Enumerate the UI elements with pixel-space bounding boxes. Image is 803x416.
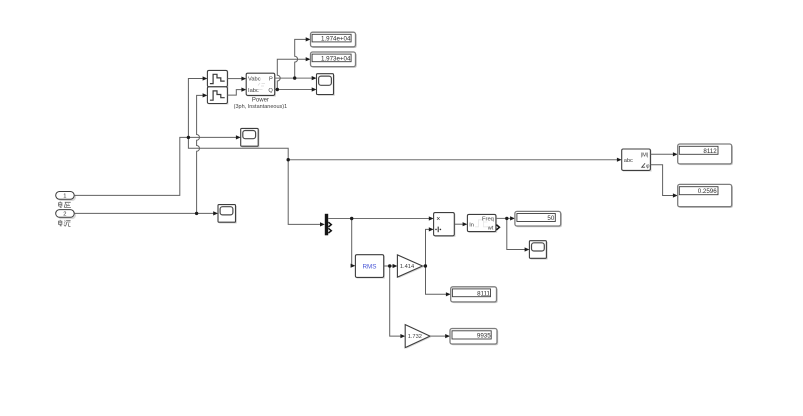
wire gain 1.732 to display 9935	[430, 334, 450, 338]
svg-text:RMS: RMS	[363, 263, 377, 270]
wire gain 1.414 tip to junction F	[423, 265, 426, 267]
demux	[325, 214, 332, 236]
wire port1 to junction A	[74, 137, 188, 195]
wire junction A right to scope B	[188, 135, 240, 139]
svg-text:Freq: Freq	[482, 217, 494, 223]
inport 1 (电压)	[56, 192, 76, 202]
junction G	[505, 217, 508, 220]
scope D (freq)	[529, 241, 547, 260]
wire P riser to display 1.974e+04 (hops Q branch)	[295, 37, 311, 78]
svg-text:Power: Power	[252, 97, 269, 103]
svg-text:×: ×	[436, 216, 440, 223]
wire rate transition 1 to Vabc	[227, 77, 246, 81]
svg-text:8111: 8111	[477, 290, 490, 297]
wire Q output to scope A	[275, 87, 317, 91]
power (3ph, instantaneous) block	[246, 73, 276, 96]
wire port2 to scope C	[74, 211, 218, 215]
svg-text:abc: abc	[624, 158, 633, 164]
svg-text:P: P	[269, 76, 273, 82]
display 1.973e+04	[311, 52, 357, 68]
wire abc |M| to display 8112	[650, 152, 677, 156]
svg-text:Iabc: Iabc	[248, 88, 259, 94]
rate transition 1	[207, 70, 228, 88]
gain 1.732	[405, 325, 431, 349]
svg-text:1.974e+04: 1.974e+04	[321, 36, 351, 43]
label 电压	[59, 202, 71, 208]
Freq (PLL) block	[467, 214, 499, 232]
display 0.2596	[678, 184, 733, 208]
display 1.974e+04	[311, 32, 357, 48]
svg-text:1.414: 1.414	[400, 264, 414, 270]
svg-text:0.2596: 0.2596	[698, 188, 717, 195]
wire rate transition 2 to Iabc	[227, 88, 246, 96]
junction D	[350, 217, 353, 220]
scope C (current)	[218, 205, 237, 224]
abc magnitude-angle block	[622, 149, 652, 172]
junction C	[195, 212, 198, 215]
wire junction D down to RMS	[351, 219, 356, 268]
scope A (P,Q)	[317, 74, 335, 96]
junction E	[388, 264, 391, 267]
wire junction B down to demux	[288, 160, 325, 227]
label (3ph, Instantaneous)1	[234, 104, 288, 110]
wire Freq to display 50	[496, 216, 515, 220]
label 电流	[59, 220, 71, 227]
svg-text:Q: Q	[268, 88, 273, 94]
junction F	[424, 264, 427, 267]
svg-text:φ: φ	[646, 164, 650, 170]
inport 2 (电流)	[56, 210, 76, 220]
svg-text:1.732: 1.732	[408, 334, 422, 340]
svg-text:(3ph, Instantaneous)1: (3ph, Instantaneous)1	[234, 104, 288, 110]
product (divide) block	[434, 213, 456, 237]
wire RMS to gain 1.414	[384, 264, 398, 268]
wire demux out1 to product x	[328, 216, 433, 220]
svg-text:9935: 9935	[477, 333, 491, 340]
display 9935	[450, 329, 498, 346]
display 8111	[451, 287, 498, 303]
RMS block	[355, 255, 385, 279]
svg-text:2: 2	[63, 212, 66, 218]
wire Q riser to display 1.973e+04 (hops P riser)	[277, 57, 310, 89]
rate transition 2	[207, 87, 228, 105]
svg-text:wt: wt	[487, 226, 494, 232]
label Power	[252, 97, 269, 103]
junction P	[293, 76, 296, 79]
wire abc angle to display 0.2596	[650, 165, 677, 198]
svg-text:|M|: |M|	[641, 153, 649, 159]
wire junction B to abc block	[288, 158, 622, 162]
wire junction A up to rate transition 1	[188, 76, 207, 137]
display 50	[515, 211, 562, 227]
display 8112	[678, 144, 733, 165]
wire junction G down to scope D	[507, 218, 530, 251]
junction Q	[276, 88, 279, 91]
wire junction E down to gain 1.732	[390, 266, 406, 338]
wire P output to scope A (hops Q riser)	[275, 76, 317, 80]
svg-text:1.973e+04: 1.973e+04	[321, 55, 351, 62]
svg-text:In: In	[469, 222, 474, 228]
svg-text:1: 1	[63, 194, 66, 200]
junction B	[287, 158, 290, 161]
svg-text:50: 50	[547, 215, 554, 222]
wire junction F up to product divide input	[426, 227, 434, 266]
svg-text:Vabc: Vabc	[248, 77, 261, 83]
svg-text:8112: 8112	[703, 148, 717, 155]
wire junction F down to display 8111	[426, 266, 451, 296]
wire junction A down to junction B	[188, 137, 288, 159]
junction A	[187, 136, 190, 139]
wire junction C up to rate transition 2 (hops two lines)	[197, 93, 208, 213]
scope B (voltage)	[241, 128, 260, 147]
wire product to Freq block	[454, 222, 467, 226]
gain 1.414	[397, 255, 423, 278]
